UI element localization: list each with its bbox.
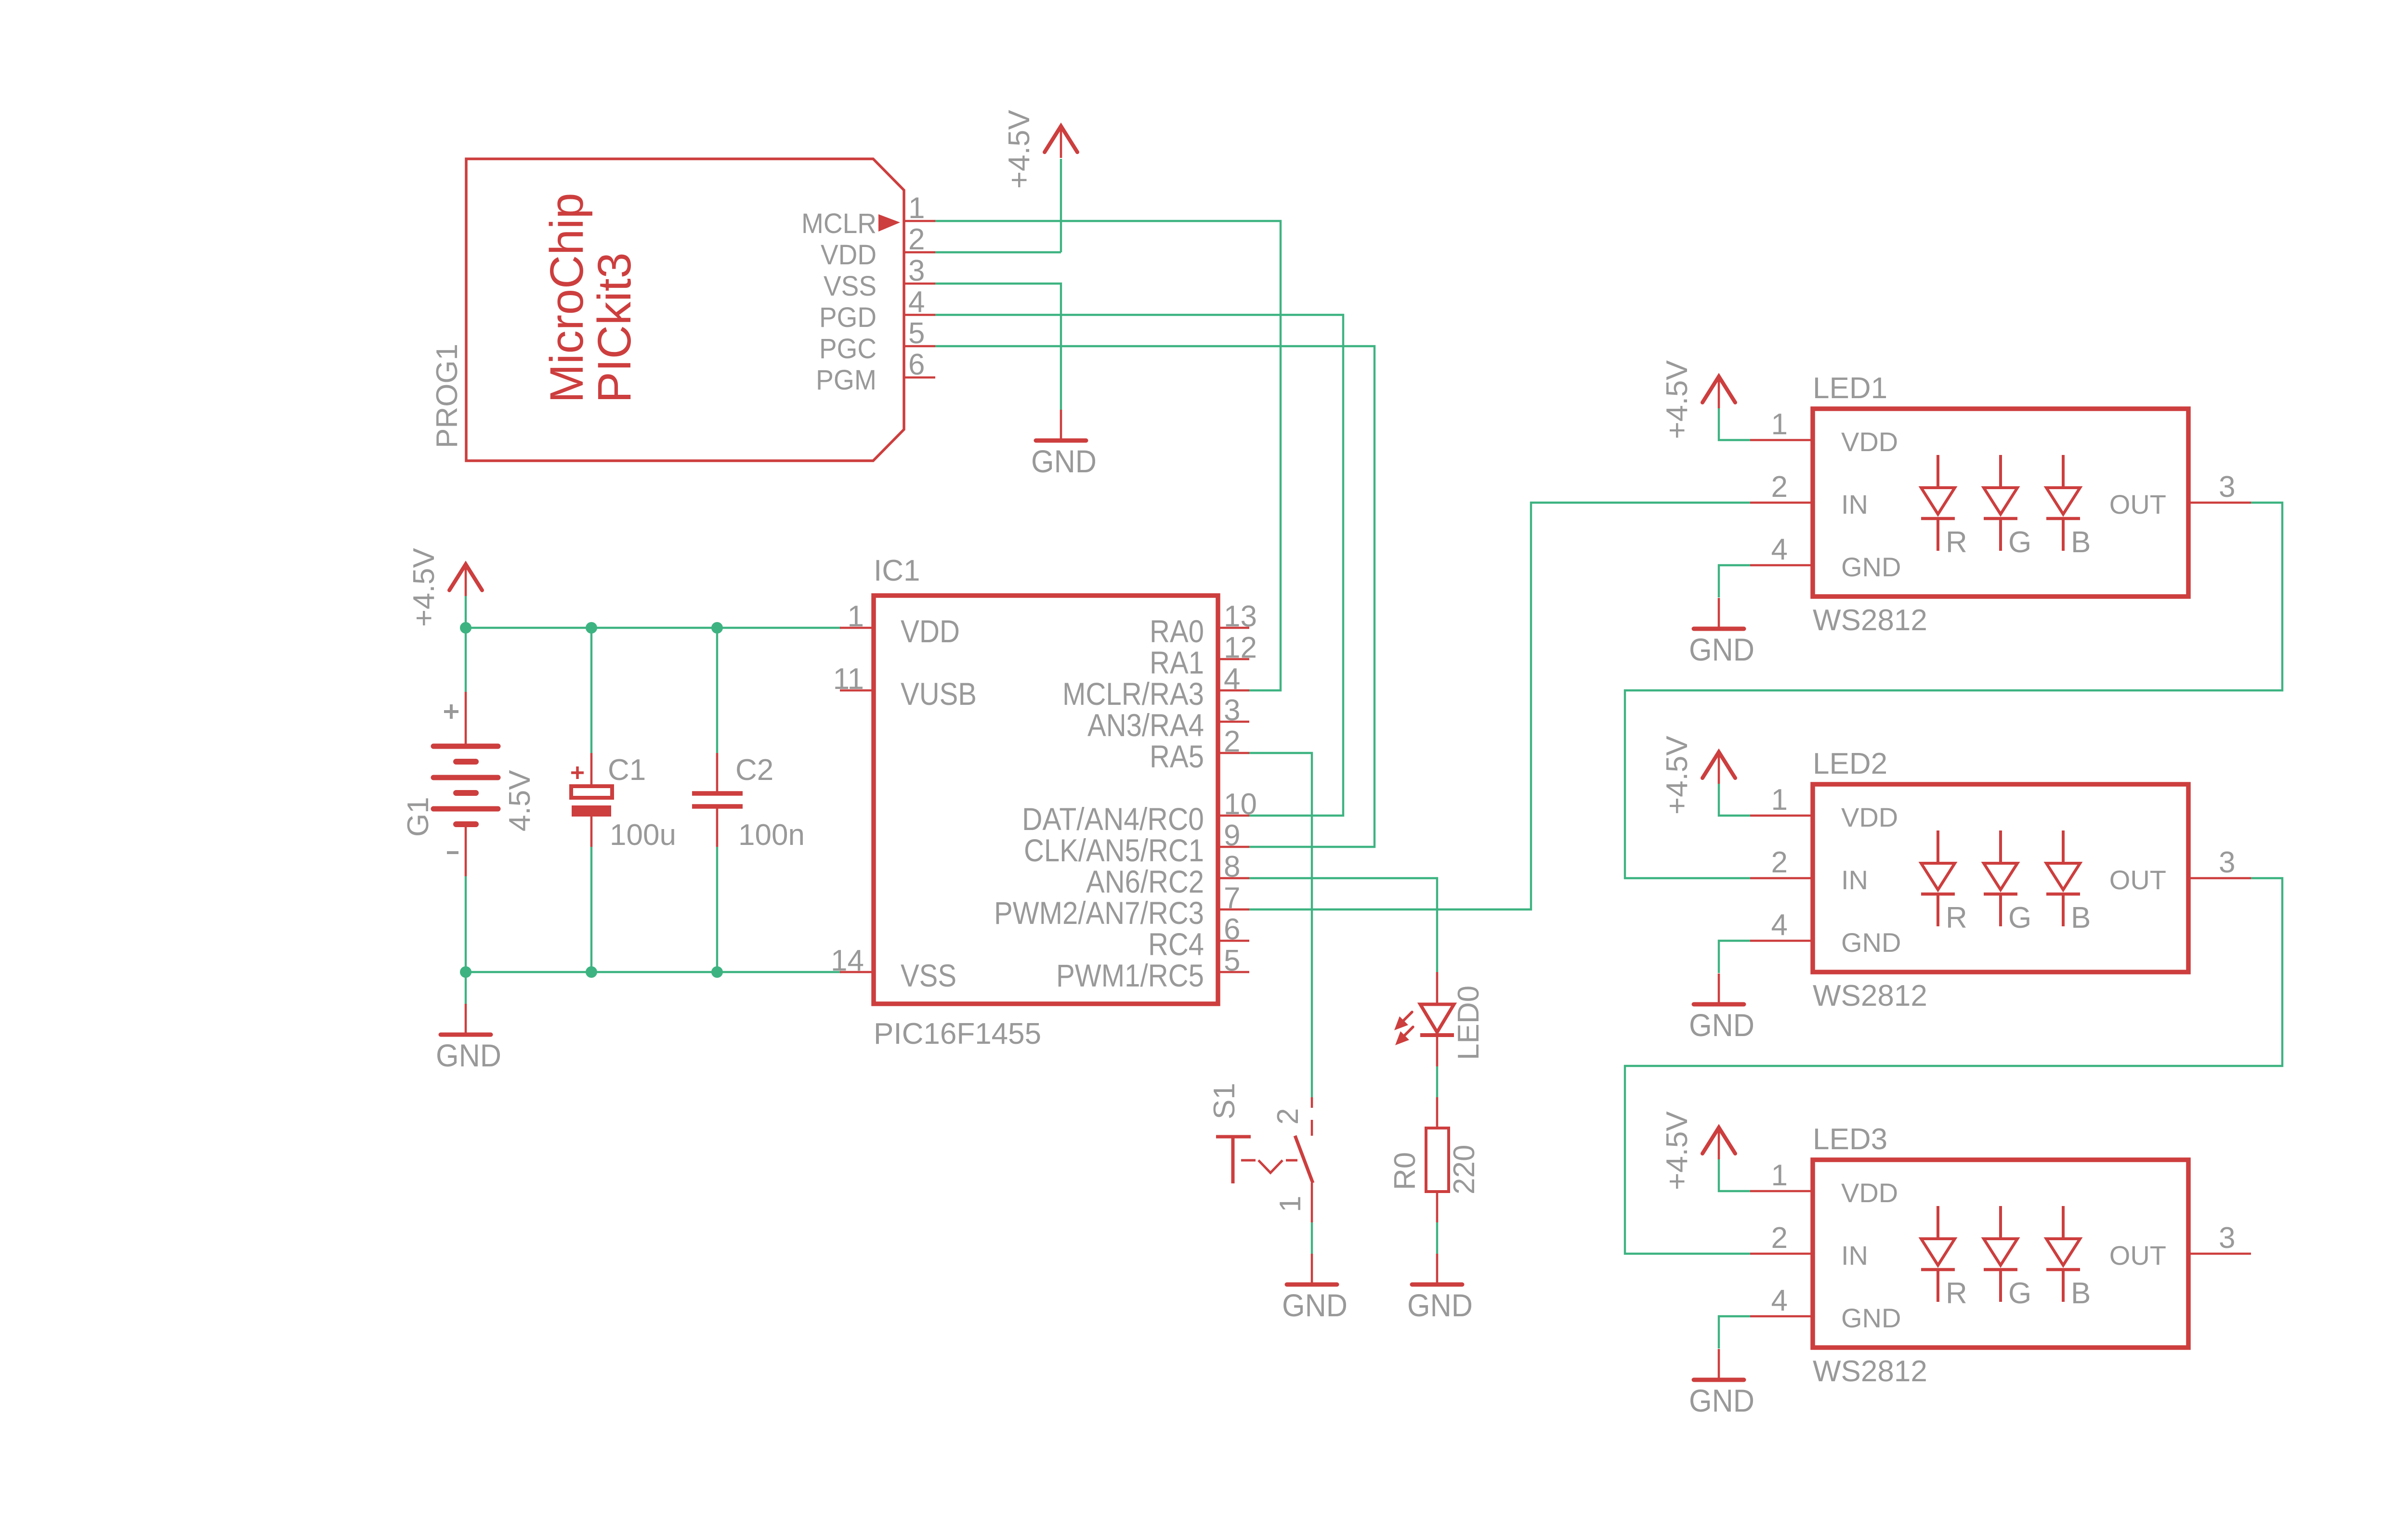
svg-text:3: 3 bbox=[908, 254, 925, 287]
switch S1 (pushbutton) bbox=[1208, 1083, 1313, 1222]
svg-text:12: 12 bbox=[1224, 631, 1257, 664]
resistor R0 220 bbox=[1388, 1097, 1481, 1222]
svg-text:OUT: OUT bbox=[2109, 489, 2166, 519]
WS2812 module LED1 bbox=[1750, 372, 2251, 637]
svg-text:WS2812: WS2812 bbox=[1813, 1355, 1927, 1388]
svg-text:1: 1 bbox=[1771, 1159, 1788, 1192]
svg-text:+4.5V: +4.5V bbox=[407, 548, 441, 627]
svg-text:2: 2 bbox=[1771, 846, 1788, 879]
svg-text:PGD: PGD bbox=[819, 302, 877, 333]
WS2812 module LED2 bbox=[1750, 747, 2251, 1012]
svg-text:GND: GND bbox=[1282, 1287, 1348, 1323]
wire LED1 OUT to LED2 IN bbox=[1625, 503, 2282, 878]
wire IC1 RA5 pin2 to switch S1 bbox=[1249, 753, 1312, 1097]
+4.5V supply for LED1 bbox=[1661, 360, 1735, 439]
IC1 pin 3 AN3/RA4 bbox=[1218, 721, 1249, 723]
svg-text:1: 1 bbox=[848, 600, 864, 633]
svg-text:3: 3 bbox=[1224, 694, 1240, 727]
svg-text:LED1: LED1 bbox=[1813, 372, 1887, 405]
junction node top rail at battery bbox=[460, 622, 471, 634]
ground for LED2 bbox=[1689, 973, 1754, 1043]
svg-text:4.5V: 4.5V bbox=[503, 770, 537, 831]
internal LED diode R bbox=[1921, 455, 1967, 559]
svg-text:VDD: VDD bbox=[1841, 1178, 1898, 1208]
svg-text:1: 1 bbox=[1771, 408, 1788, 441]
IC1 pin 10 DAT/AN4/RC0 bbox=[1218, 815, 1249, 817]
svg-text:AN3/RA4: AN3/RA4 bbox=[1087, 707, 1204, 743]
svg-text:WS2812: WS2812 bbox=[1813, 604, 1927, 637]
svg-text:GND: GND bbox=[436, 1038, 501, 1073]
wire rail to C2 top bbox=[716, 628, 718, 753]
junction node top rail at C2 bbox=[711, 622, 723, 634]
svg-text:MicroChip: MicroChip bbox=[540, 193, 593, 403]
IC U1: IC1 PIC16F1455 bbox=[831, 554, 1257, 1051]
+4.5V supply (battery rail) bbox=[407, 548, 482, 627]
svg-text:LED0: LED0 bbox=[1452, 986, 1485, 1060]
wire IC1 PWM2 pin7 to LED1 IN bbox=[1249, 503, 1750, 909]
internal LED diode R bbox=[1921, 830, 1967, 934]
svg-text:RA5: RA5 bbox=[1150, 739, 1204, 774]
svg-text:3: 3 bbox=[2219, 470, 2235, 504]
PROG1 pin 5 PGC bbox=[904, 345, 935, 348]
connector PROG1 MicroChip PICkit3 bbox=[431, 159, 935, 461]
+4.5V supply for LED3 bbox=[1661, 1111, 1735, 1190]
LED0 emission arrows bbox=[1403, 1012, 1412, 1021]
wire IC1 AN6/RC2 pin8 to LED0 bbox=[1249, 878, 1437, 972]
junction node top rail at C1 bbox=[586, 622, 597, 634]
wire C2 bottom to GND rail bbox=[716, 847, 718, 972]
PROG1 pin 2 VDD bbox=[904, 251, 935, 254]
svg-text:5: 5 bbox=[908, 317, 925, 350]
svg-text:+4.5V: +4.5V bbox=[1661, 1111, 1694, 1190]
wire arrow to rail bbox=[465, 596, 467, 628]
svg-text:13: 13 bbox=[1224, 600, 1257, 633]
IC1 pin 2 RA5 bbox=[1218, 752, 1249, 754]
svg-text:8: 8 bbox=[1224, 850, 1240, 883]
svg-text:1: 1 bbox=[908, 192, 925, 225]
svg-text:G1: G1 bbox=[402, 797, 435, 837]
svg-text:VDD: VDD bbox=[901, 613, 960, 649]
svg-text:6: 6 bbox=[908, 348, 925, 381]
svg-text:OUT: OUT bbox=[2109, 865, 2166, 895]
svg-text:VUSB: VUSB bbox=[901, 676, 977, 712]
svg-text:PROG1: PROG1 bbox=[431, 344, 464, 448]
svg-text:220: 220 bbox=[1448, 1145, 1481, 1194]
svg-text:PGC: PGC bbox=[819, 333, 877, 364]
wire PROG1 VSS pin 3 to GND bbox=[935, 284, 1061, 410]
svg-text:RA1: RA1 bbox=[1150, 645, 1204, 680]
svg-text:4: 4 bbox=[1771, 908, 1788, 942]
svg-text:1: 1 bbox=[1274, 1196, 1307, 1212]
+4.5V supply for LED2 bbox=[1661, 736, 1735, 815]
svg-text:B: B bbox=[2071, 526, 2091, 559]
PROG1 pin 6 PGM bbox=[904, 376, 935, 379]
internal LED diode G bbox=[1984, 455, 2031, 559]
IC1 pin 8 AN6/RC2 bbox=[1218, 877, 1249, 880]
svg-text:PWM2/AN7/RC3: PWM2/AN7/RC3 bbox=[994, 895, 1204, 931]
svg-text:S1: S1 bbox=[1208, 1083, 1241, 1119]
wire net PGD: PROG1 pin4 to IC1 pin10 bbox=[935, 315, 1343, 816]
junction node bottom rail at C2 bbox=[711, 966, 723, 978]
wire +4.5V to LED2 VDD bbox=[1719, 784, 1750, 816]
ground for LED3 bbox=[1689, 1349, 1754, 1418]
svg-text:R: R bbox=[1946, 901, 1967, 934]
svg-text:VSS: VSS bbox=[901, 958, 956, 993]
svg-text:GND: GND bbox=[1841, 927, 1901, 958]
svg-text:100u: 100u bbox=[610, 818, 676, 852]
internal LED diode R bbox=[1921, 1206, 1967, 1310]
wire LED3 GND pin to ground bbox=[1719, 1316, 1750, 1349]
svg-text:LED2: LED2 bbox=[1813, 747, 1887, 780]
ground (S1) bbox=[1282, 1254, 1348, 1323]
svg-text:B: B bbox=[2071, 901, 2091, 934]
svg-text:R: R bbox=[1946, 1277, 1967, 1310]
svg-text:C2: C2 bbox=[735, 753, 773, 787]
svg-text:PIC16F1455: PIC16F1455 bbox=[874, 1017, 1041, 1051]
svg-text:GND: GND bbox=[1841, 1303, 1901, 1333]
wire S1 pin1 to ground bbox=[1311, 1222, 1313, 1254]
wire battery - to GND rail bbox=[465, 876, 467, 972]
+4.5V supply (PROG1) bbox=[1003, 110, 1077, 189]
MCLR input arrow bbox=[878, 214, 900, 232]
IC1 pin 9 CLK/AN5/RC1 bbox=[1218, 846, 1249, 848]
wire LED2 GND pin to ground bbox=[1719, 941, 1750, 973]
svg-text:GND: GND bbox=[1031, 443, 1097, 479]
svg-text:100n: 100n bbox=[738, 818, 805, 852]
IC1 pin 7 PWM2/AN7/RC3 bbox=[1218, 908, 1249, 911]
svg-text:GND: GND bbox=[1407, 1287, 1473, 1323]
wire PROG1 VDD pin 2 to +4.5V bbox=[935, 251, 1061, 253]
internal LED diode G bbox=[1984, 830, 2031, 934]
ground (battery) bbox=[436, 1004, 501, 1073]
svg-text:IN: IN bbox=[1841, 489, 1868, 519]
wire +4.5V to LED1 VDD bbox=[1719, 408, 1750, 440]
svg-text:MCLR/RA3: MCLR/RA3 bbox=[1062, 676, 1204, 712]
svg-text:G: G bbox=[2008, 526, 2031, 559]
IC1 pin 1 VDD bbox=[840, 627, 874, 629]
internal LED diode G bbox=[1984, 1206, 2031, 1310]
svg-text:2: 2 bbox=[1771, 470, 1788, 504]
svg-text:4: 4 bbox=[1771, 1284, 1788, 1317]
svg-text:MCLR: MCLR bbox=[801, 208, 877, 239]
svg-text:VDD: VDD bbox=[821, 239, 877, 271]
svg-text:3: 3 bbox=[2219, 846, 2235, 879]
svg-text:CLK/AN5/RC1: CLK/AN5/RC1 bbox=[1024, 832, 1204, 868]
wire net MCLR: PROG1 pin1 to IC1 pin4 bbox=[935, 221, 1281, 690]
IC1 pin 4 MCLR/RA3 bbox=[1218, 689, 1249, 692]
svg-text:R: R bbox=[1946, 526, 1967, 559]
wire +4.5V rail to IC1 VDD bbox=[466, 627, 841, 629]
PROG1 pin 1 MCLR bbox=[904, 220, 935, 222]
svg-text:GND: GND bbox=[1689, 1007, 1754, 1043]
svg-text:14: 14 bbox=[831, 944, 864, 977]
svg-text:+4.5V: +4.5V bbox=[1003, 110, 1036, 189]
svg-text:4: 4 bbox=[1771, 533, 1788, 566]
svg-text:2: 2 bbox=[1224, 725, 1240, 758]
WS2812 module LED3 bbox=[1750, 1123, 2251, 1388]
IC1 pin 14 VSS bbox=[840, 971, 874, 973]
battery G1 4.5V bbox=[402, 692, 537, 876]
ground for LED1 bbox=[1689, 598, 1754, 667]
IC1 pin 13 RA0 bbox=[1218, 627, 1249, 629]
IC1 pin 6 RC4 bbox=[1218, 940, 1249, 942]
svg-text:G: G bbox=[2008, 901, 2031, 934]
IC1 pin 11 VUSB bbox=[840, 689, 874, 692]
PROG1 pin 4 PGD bbox=[904, 314, 935, 316]
IC1 pin 5 PWM1/RC5 bbox=[1218, 971, 1249, 973]
svg-text:LED3: LED3 bbox=[1813, 1123, 1887, 1156]
wire LED2 OUT to LED3 IN bbox=[1625, 878, 2282, 1254]
svg-text:OUT: OUT bbox=[2109, 1240, 2166, 1271]
capacitor C1 100u (polarized) bbox=[571, 753, 676, 852]
wire C1 bottom to GND rail bbox=[590, 847, 592, 972]
junction node bottom rail at C1 bbox=[586, 966, 597, 978]
svg-text:DAT/AN4/RC0: DAT/AN4/RC0 bbox=[1022, 801, 1204, 837]
wire +4.5V to LED3 VDD bbox=[1719, 1159, 1750, 1191]
svg-text:PGM: PGM bbox=[816, 364, 877, 396]
junction node bottom rail at battery bbox=[460, 966, 471, 978]
svg-text:IC1: IC1 bbox=[874, 554, 920, 587]
svg-text:VDD: VDD bbox=[1841, 802, 1898, 832]
wire rail to battery + bbox=[465, 628, 467, 692]
svg-text:3: 3 bbox=[2219, 1221, 2235, 1255]
svg-text:7: 7 bbox=[1224, 882, 1240, 915]
PROG1 pin 3 VSS bbox=[904, 283, 935, 285]
wire net PGC: PROG1 pin5 to IC1 pin9 bbox=[935, 346, 1374, 847]
svg-text:4: 4 bbox=[1224, 662, 1240, 696]
internal LED diode B bbox=[2046, 830, 2091, 934]
svg-text:11: 11 bbox=[833, 662, 864, 696]
svg-text:VSS: VSS bbox=[824, 271, 877, 302]
wire GND rail to IC1 VSS bbox=[466, 971, 841, 973]
svg-text:PWM1/RC5: PWM1/RC5 bbox=[1056, 958, 1204, 993]
svg-text:R0: R0 bbox=[1388, 1152, 1422, 1190]
internal LED diode B bbox=[2046, 455, 2091, 559]
wire GND rail to ground symbol bbox=[465, 972, 467, 1004]
svg-text:10: 10 bbox=[1224, 788, 1257, 821]
svg-text:2: 2 bbox=[908, 223, 925, 256]
svg-text:GND: GND bbox=[1689, 632, 1754, 667]
wire rail to C1 top bbox=[590, 628, 592, 753]
svg-text:4: 4 bbox=[908, 285, 925, 319]
ground (R0) bbox=[1407, 1254, 1473, 1323]
svg-text:+4.5V: +4.5V bbox=[1661, 360, 1694, 439]
svg-text:2: 2 bbox=[1271, 1108, 1305, 1125]
wire R0 to ground bbox=[1436, 1222, 1438, 1254]
svg-text:5: 5 bbox=[1224, 944, 1240, 977]
svg-text:AN6/RC2: AN6/RC2 bbox=[1086, 864, 1204, 899]
svg-text:+4.5V: +4.5V bbox=[1661, 736, 1694, 815]
wire +4.5V down to VDD net bbox=[1060, 159, 1062, 252]
internal LED diode B bbox=[2046, 1206, 2091, 1310]
IC1 pin 12 RA1 bbox=[1218, 658, 1249, 661]
svg-text:IN: IN bbox=[1841, 1240, 1868, 1271]
svg-text:VDD: VDD bbox=[1841, 427, 1898, 457]
capacitor C2 100n bbox=[692, 753, 805, 852]
svg-text:C1: C1 bbox=[608, 753, 646, 787]
svg-text:IN: IN bbox=[1841, 865, 1868, 895]
svg-text:WS2812: WS2812 bbox=[1813, 979, 1927, 1012]
svg-text:9: 9 bbox=[1224, 819, 1240, 852]
svg-text:GND: GND bbox=[1689, 1383, 1754, 1418]
svg-text:G: G bbox=[2008, 1277, 2031, 1310]
svg-text:6: 6 bbox=[1224, 913, 1240, 946]
ground (PROG1 VSS) bbox=[1031, 410, 1097, 479]
svg-text:1: 1 bbox=[1771, 783, 1788, 817]
LED LED0 bbox=[1394, 972, 1485, 1066]
svg-text:PICkit3: PICkit3 bbox=[588, 252, 641, 403]
wire LED0 cathode to R0 bbox=[1436, 1066, 1438, 1097]
svg-text:GND: GND bbox=[1841, 552, 1901, 582]
svg-text:2: 2 bbox=[1771, 1221, 1788, 1255]
svg-text:RA0: RA0 bbox=[1150, 613, 1204, 649]
svg-text:RC4: RC4 bbox=[1148, 926, 1204, 962]
svg-text:B: B bbox=[2071, 1277, 2091, 1310]
wire LED1 GND pin to ground bbox=[1719, 565, 1750, 597]
